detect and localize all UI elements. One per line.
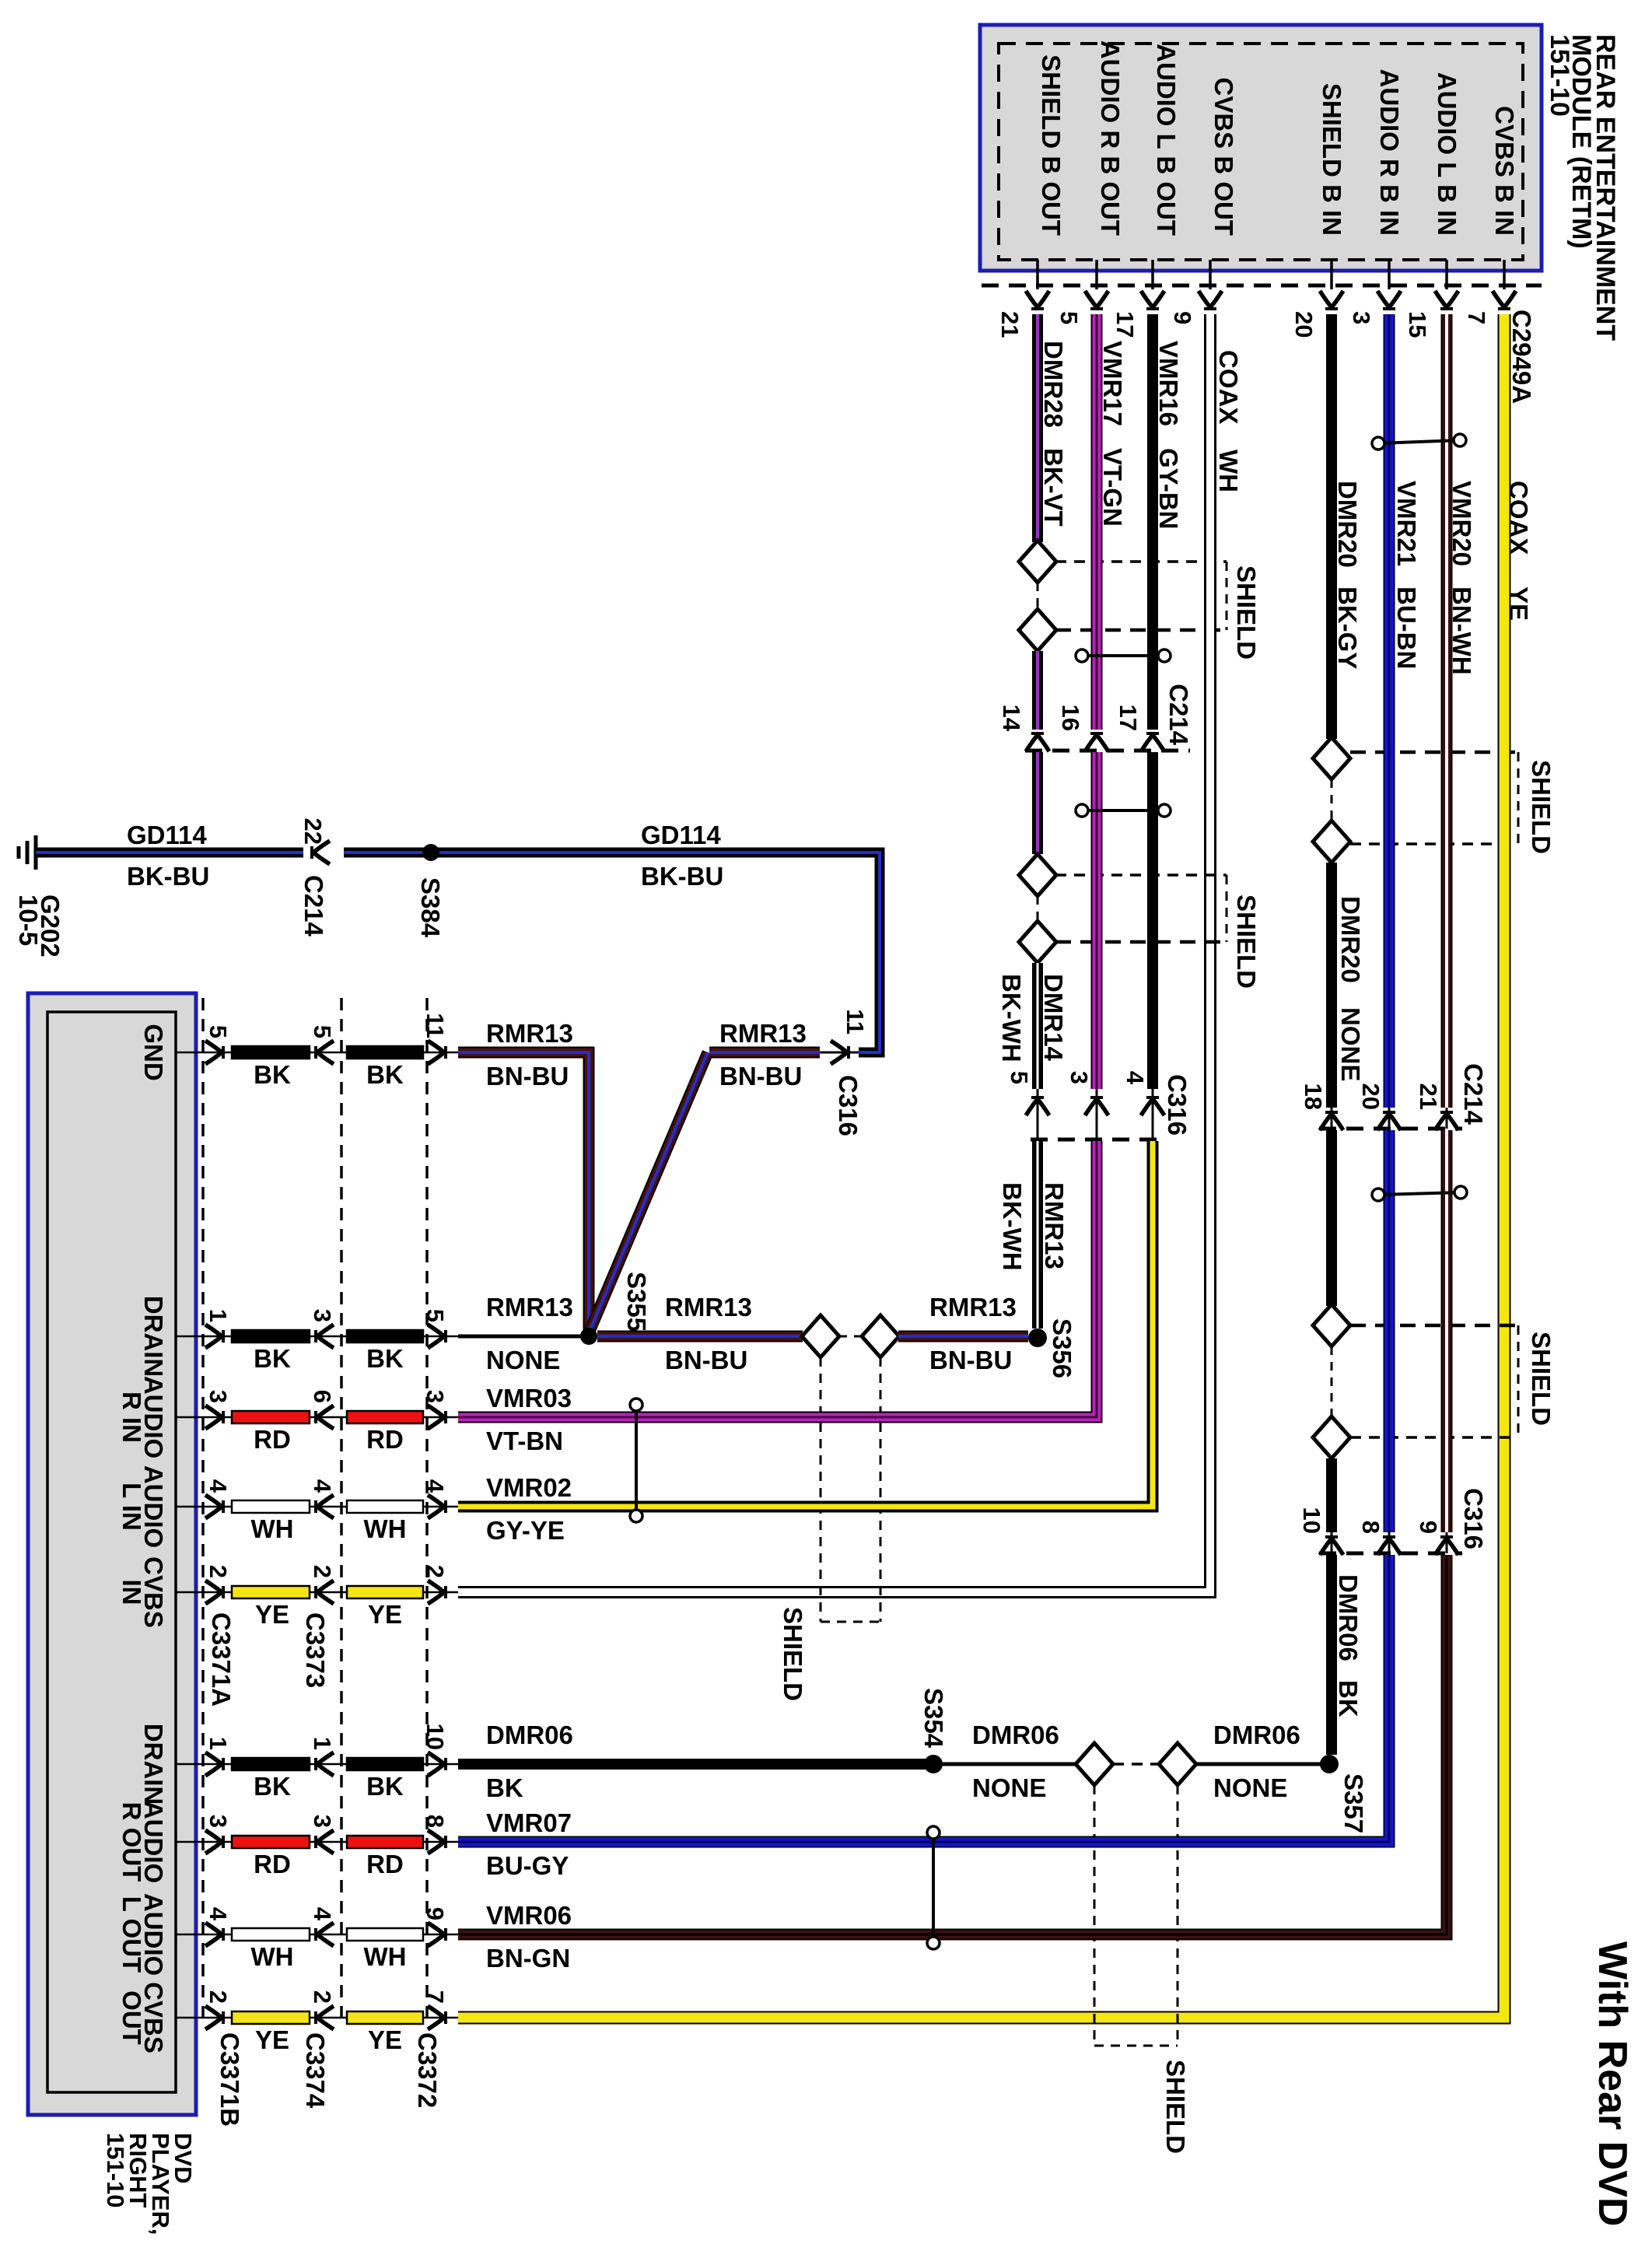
module DVD pin label AUDIO R IN [117,1376,168,1458]
connector C3372 name label [413,2032,442,2108]
svg-text:10-5: 10-5 [14,894,43,946]
module RETM pin label CVBS B IN [1490,106,1519,289]
splice S356 [1028,1318,1076,1378]
svg-text:SHIELD B OUT: SHIELD B OUT [1037,54,1066,236]
svg-text:C214: C214 [1164,684,1193,746]
wire VMR21 BU-BN segment C214 to C316 [1384,1130,1395,1532]
svg-text:S384: S384 [416,877,445,938]
shield bracket SHIELD label (upper left) [1055,562,1261,660]
svg-text:BK: BK [366,1060,404,1089]
wire ARIN row from DVD player through C3371/C3373 connectors [176,1390,458,1454]
connector C214 (left) name label [1164,684,1193,746]
svg-text:11: 11 [422,1013,449,1038]
svg-text:6: 6 [309,1390,336,1403]
svg-text:With Rear DVD: With Rear DVD [1590,1941,1635,2226]
svg-text:RD: RD [366,1425,404,1454]
caption With Rear DVD [1590,1941,1635,2226]
svg-text:BK: BK [1334,1680,1363,1717]
svg-text:10: 10 [422,1724,449,1750]
svg-text:3: 3 [422,1390,449,1403]
svg-text:7: 7 [422,1990,449,2004]
svg-text:RD: RD [254,1425,291,1454]
svg-text:WH: WH [364,1942,407,1971]
connector C316 pin 10 arrow [1298,1507,1343,1555]
module DVD PLAYER title label [102,2133,197,2235]
svg-text:BK: BK [254,1772,291,1801]
connector C2949A pin 15 arrow [1404,291,1458,338]
svg-text:AUDIO L B IN: AUDIO L B IN [1433,72,1461,236]
svg-text:WH: WH [251,1514,294,1543]
svg-text:4: 4 [205,1479,232,1493]
module DVD PLAYER RIGHT box [28,993,196,2115]
connector C316 pin 4 arrow [1122,1071,1164,1140]
wire GD114 BK-BU from ground to C214 pin 22 [36,821,303,891]
module RETM pin label SHIELD B OUT [1037,54,1066,289]
svg-text:BK-BU: BK-BU [641,862,723,891]
wire DMR28 BK-VT from RETM pin 21 (vertical) [1038,314,1068,542]
svg-text:YE: YE [255,2025,289,2054]
svg-text:VMR03: VMR03 [486,1384,572,1413]
svg-text:RMR13: RMR13 [719,1019,807,1048]
module DVD pin label CVBS IN [117,1556,168,1628]
svg-text:2: 2 [205,1990,232,2004]
svg-text:C316: C316 [834,1075,863,1136]
module DVD pin label CVBS OUT [117,1982,168,2053]
wire DMR06 BK vertical from C316 down to splice S357 [1332,1555,1363,1755]
svg-text:GD114: GD114 [641,821,721,849]
svg-text:3: 3 [309,1815,336,1828]
svg-text:SHIELD: SHIELD [1232,565,1261,660]
svg-text:BK: BK [366,1344,404,1373]
module DVD pin label DRAIN [139,1724,168,1805]
wire AROUT row from DVD player through C3371/C3373 connectors [176,1815,458,1878]
svg-text:4: 4 [309,1907,336,1921]
svg-text:BK-BU: BK-BU [127,862,209,891]
connector C214 pin 17 arrow [1115,705,1164,751]
svg-text:RD: RD [254,1850,291,1878]
wire DRAIN row from DVD player through C3371/C3373 connectors [176,1309,458,1373]
connector C2949A pin 5 arrow [1055,291,1108,324]
wire DMR20 to C316 pin 10 [1326,1458,1337,1532]
svg-text:5: 5 [1006,1071,1033,1084]
wire VMR20 BN-WH segment C214 to C316 [1441,1130,1453,1532]
svg-text:NONE: NONE [1336,1007,1365,1081]
svg-text:DMR14: DMR14 [1039,974,1068,1062]
svg-text:8: 8 [1357,1521,1384,1534]
svg-text:BU-BN: BU-BN [1392,586,1421,669]
wire GND row from DVD player through C3371/C3373 connectors [176,1013,458,1089]
svg-text:17: 17 [1115,705,1142,731]
svg-text:SHIELD: SHIELD [1527,1332,1556,1426]
svg-text:COAX: COAX [1214,350,1243,424]
svg-text:C214: C214 [1459,1063,1488,1126]
svg-text:BN-BU: BN-BU [486,1062,569,1090]
wire GD114 BK-BU from C214 to splice S384 and corner to C316 [344,821,880,1052]
svg-text:10: 10 [1298,1507,1325,1534]
svg-text:3: 3 [1066,1071,1093,1084]
wire VMR06 BN-GN (AUDIO L OUT row) from C316 corner [458,1555,1447,1973]
svg-text:YE: YE [368,1600,402,1629]
twisted pair symbol VMR17/VMR16 lower [1076,804,1171,817]
svg-text:SHIELD B IN: SHIELD B IN [1318,83,1346,236]
svg-text:9: 9 [1415,1521,1442,1534]
svg-text:151-10: 151-10 [102,2133,129,2208]
connector C214 pin 18 arrow [1300,1083,1343,1130]
svg-text:VMR02: VMR02 [486,1473,572,1502]
svg-text:9: 9 [1169,311,1196,324]
svg-text:WH: WH [1214,450,1243,492]
svg-text:BN-BU: BN-BU [929,1346,1012,1374]
module DVD pin label AUDIO R OUT [117,1801,168,1883]
wire RMR13 BN-BU diagonal from S355 up to GND row [589,1052,708,1333]
svg-text:1: 1 [309,1737,336,1750]
svg-text:DMR06: DMR06 [972,1721,1059,1749]
svg-text:2: 2 [309,1990,336,2004]
module RETM pin label AUDIO R B IN [1375,69,1404,290]
wire VMR21 BU-BN from RETM pin 3 (vertical) [1389,314,1421,1108]
wire DMR14 BK-WH to C316 [997,963,1068,1089]
module RETM title label [1545,34,1620,341]
connector C3373 name label [301,1612,330,1688]
svg-text:4: 4 [422,1479,449,1493]
twisted pair symbol VMR21/VMR20 upper [1372,434,1466,450]
splice S384 [416,844,445,938]
wire VMR16 GY-BN from RETM pin 17 (vertical) [1153,314,1183,730]
wire DMR14 BK-WH segment below C214 [1032,752,1043,854]
wire RMR13 BN-BU from S355 to shield diamonds [597,1293,803,1374]
connector C316 pin 3 arrow [1066,1071,1108,1140]
svg-text:3: 3 [1348,311,1375,324]
svg-text:15: 15 [1404,311,1431,338]
module DVD pin label GND [139,1024,168,1080]
svg-text:C214: C214 [299,875,328,937]
connector C214 pin 20 arrow [1357,1083,1401,1130]
svg-text:DMR20: DMR20 [1336,896,1365,983]
connector C2949A dashed connector line [982,284,1542,288]
svg-text:3: 3 [205,1390,232,1403]
svg-text:18: 18 [1300,1083,1327,1110]
svg-text:VMR20: VMR20 [1447,481,1476,566]
wire COAX WH from RETM pin 9 (hollow white coax), runs to CVBS IN row [458,314,1243,1592]
svg-text:C3374: C3374 [301,2032,330,2109]
module RETM pin label AUDIO L B OUT [1152,44,1181,289]
connector C2949A pin 3 arrow [1348,291,1401,324]
shield diamond pair on DMR20 (lower) [1313,1304,1350,1458]
connector C3374 name label [301,2032,330,2109]
svg-text:4: 4 [309,1479,336,1493]
svg-text:YE: YE [255,1600,289,1629]
svg-text:NONE: NONE [1213,1773,1287,1802]
wire VMR16 GY-BN segment C214 to C316 [1147,752,1158,1089]
connector C214 (right) name label [1459,1063,1488,1126]
svg-text:GY-BN: GY-BN [1154,448,1183,530]
svg-text:14: 14 [998,705,1025,732]
svg-text:BK-WH: BK-WH [998,1182,1027,1271]
svg-text:SHIELD: SHIELD [1527,760,1556,854]
twisted pair symbol VMR03/VMR02 [630,1399,642,1522]
svg-text:S355: S355 [622,1272,651,1332]
wire VMR03 VT-BN (AUDIO R IN row) from C316 corner [458,1141,1097,1455]
wire DMR06 NONE thin segment to splice S357 [1195,1721,1322,1802]
svg-text:NONE: NONE [486,1346,560,1374]
svg-text:GY-YE: GY-YE [486,1516,565,1545]
svg-text:VMR17: VMR17 [1098,341,1127,426]
svg-text:3: 3 [309,1309,336,1322]
svg-text:11: 11 [842,1009,869,1034]
svg-text:4: 4 [205,1907,232,1921]
wire DMR20 NONE below C214 to shield diamonds [1326,1130,1337,1306]
svg-text:RMR13: RMR13 [486,1019,573,1048]
svg-text:5: 5 [309,1025,336,1038]
shield diamond pair on RMR13 drain [802,1315,899,1357]
svg-text:C3371B: C3371B [215,2032,244,2127]
connector C214 (right group) dashed line [1319,1127,1462,1131]
svg-text:22: 22 [299,818,327,845]
svg-text:IN: IN [117,1580,146,1605]
splice S357 [1320,1755,1368,1833]
wire DRAIN2 row from DVD player through C3371/C3373 connectors [176,1724,458,1801]
wire DMR06 NONE thin segment to shield diamonds [943,1721,1076,1802]
svg-text:YE: YE [368,2025,402,2054]
twisted pair symbol VMR17/VMR16 upper [1076,649,1171,662]
svg-text:20: 20 [1290,311,1318,338]
shield diamond pair on DMR20 (upper) [1313,737,1350,863]
shield bracket SHIELD label (right mid) [1350,1325,1556,1437]
svg-text:CVBS B IN: CVBS B IN [1490,106,1519,236]
shield bracket with SHIELD label below (RMR13) [779,1357,880,1701]
wire VMR07 BU-GY (AUDIO R OUT row) from C316 corner [458,1555,1389,1880]
svg-text:SHIELD: SHIELD [1161,2060,1190,2154]
connector C316 pin 11 arrow (GND circuit) [820,1009,869,1136]
connector C3372 dashed line (third) [425,998,429,2021]
wire ALIN row from DVD player through C3371/C3373 connectors [176,1479,458,1543]
svg-text:7: 7 [1463,311,1490,324]
connector C2949A pin 9 arrow [1169,291,1222,324]
connector C316 (left group) dashed line [1031,1138,1163,1142]
svg-text:16: 16 [1057,705,1084,731]
svg-text:3: 3 [205,1815,232,1828]
svg-text:VMR06: VMR06 [486,1901,572,1930]
connector C316 (right group) dashed line [1319,1552,1462,1556]
wire DMR20 BK-GY from RETM pin 20 (vertical) [1332,314,1362,739]
svg-text:VMR16: VMR16 [1154,341,1183,426]
svg-text:COAX: COAX [1504,481,1533,555]
svg-text:VMR21: VMR21 [1392,481,1421,566]
svg-text:BK-VT: BK-VT [1039,448,1068,527]
connector C316 (right) name label [1459,1488,1488,1549]
svg-text:DMR28: DMR28 [1039,341,1068,428]
svg-text:DRAIN: DRAIN [139,1724,168,1805]
module DVD pin label AUDIO L IN [117,1465,168,1548]
svg-text:C316: C316 [1459,1488,1488,1549]
svg-text:CVBS B OUT: CVBS B OUT [1209,77,1238,236]
wire ALOUT row from DVD player through C3371/C3373 connectors [176,1907,458,1971]
svg-text:R IN: R IN [117,1392,146,1443]
connector C214 pin 16 arrow [1057,705,1108,751]
svg-text:2: 2 [205,1565,232,1578]
svg-text:21: 21 [996,311,1024,338]
connector C316 pin 9 arrow [1415,1521,1458,1555]
svg-text:VT-GN: VT-GN [1098,448,1127,527]
svg-text:BN-BU: BN-BU [665,1346,747,1374]
connector C214 pin 22 inline arrow [299,818,330,937]
wire RMR13 NONE (DRAIN row) thin drain wire [458,1293,582,1374]
connector C3373 / C3374 dashed line [340,998,343,2021]
svg-text:AUDIO R B IN: AUDIO R B IN [1375,69,1404,236]
svg-text:BN-WH: BN-WH [1447,586,1476,675]
wire VMR17 VT-GN from RETM pin 5 (vertical) [1097,314,1127,730]
svg-text:5: 5 [1055,311,1083,324]
svg-text:BK-GY: BK-GY [1333,586,1362,669]
svg-text:2: 2 [309,1565,336,1578]
connector C3371B name label [215,2032,244,2127]
svg-text:L IN: L IN [117,1483,146,1531]
module RETM (Rear Entertainment Module) box [980,25,1542,271]
connector C316 pin 8 arrow [1357,1521,1401,1555]
svg-text:C3371A: C3371A [207,1612,236,1707]
wire CVIN row from DVD player through C3371/C3373 connectors [176,1565,458,1629]
svg-text:1: 1 [205,1309,232,1322]
svg-text:RMR13: RMR13 [665,1293,752,1322]
connector C3371A / C3371B dashed line [201,998,205,2021]
svg-text:GD114: GD114 [127,821,207,849]
svg-text:8: 8 [422,1815,449,1828]
svg-text:BK: BK [366,1772,404,1801]
svg-text:RMR13: RMR13 [929,1293,1017,1322]
svg-text:BK-WH: BK-WH [997,974,1026,1062]
svg-text:BN-GN: BN-GN [486,1944,570,1973]
connector C316 pin 5 arrow [1006,1071,1049,1140]
svg-text:WH: WH [364,1514,407,1543]
svg-text:NONE: NONE [972,1773,1046,1802]
svg-text:DMR06: DMR06 [1334,1574,1363,1661]
wire DMR20 NONE continues to C214 [1332,863,1365,1108]
splice S354 [919,1688,948,1773]
module RETM pin label CVBS B OUT [1209,77,1238,289]
svg-text:C316: C316 [1163,1074,1192,1136]
svg-text:SHIELD: SHIELD [1232,894,1261,989]
wire CVOUT row from DVD player through C3371/C3373 connectors [176,1990,458,2054]
svg-text:GND: GND [139,1024,168,1080]
svg-text:L OUT: L OUT [117,1896,146,1973]
svg-text:C2949A: C2949A [1507,310,1536,404]
svg-text:BN-BU: BN-BU [719,1062,802,1090]
svg-text:151-10: 151-10 [1545,34,1574,117]
wire VMR20 BN-WH from RETM pin 15 (vertical) [1447,314,1476,1108]
svg-text:9: 9 [422,1907,449,1920]
wire RMR13 BN-BU second segment to C316 pin 11 [709,1019,820,1090]
svg-text:S356: S356 [1048,1318,1076,1378]
twisted pair symbol VMR21/VMR20 lower [1372,1186,1467,1201]
svg-text:VT-BN: VT-BN [486,1427,563,1455]
svg-text:4: 4 [1122,1071,1149,1085]
wire VMR17 VT-GN segment C214 to C316 [1091,752,1103,1089]
connector C2949A pin 17 arrow [1111,291,1164,338]
shield bracket with SHIELD label below (DMR06) [1094,1785,1190,2154]
module DVD pin label AUDIO L OUT [117,1893,168,1976]
connector C2949A name label [1507,310,1536,404]
svg-text:DMR06: DMR06 [486,1721,573,1749]
svg-text:RMR13: RMR13 [1040,1182,1069,1269]
shield diamond pair on DMR14 [1019,854,1056,963]
svg-text:BK: BK [254,1060,291,1089]
connector C2949A pin 7 arrow [1463,291,1516,324]
wire RMR13 BK-WH from C316 to splice S356 [998,1141,1069,1329]
svg-text:RD: RD [366,1850,404,1878]
connector C214 (left group) dashed line [1025,749,1190,753]
connector C3371A name label [207,1612,236,1707]
wire RMR13 BN-BU (GND row) to corner and down to splice S355 [458,1019,589,1332]
shield bracket SHIELD label (left mid) [1055,875,1261,989]
wire VMR02 GY-YE (AUDIO L IN row) from C316 corner [458,1141,1153,1545]
svg-text:S354: S354 [919,1688,948,1749]
svg-text:DRAIN: DRAIN [139,1296,168,1378]
connector C316 (left) name label [1163,1074,1192,1136]
svg-text:VMR07: VMR07 [486,1808,572,1837]
svg-text:17: 17 [1111,311,1139,338]
svg-text:C3373: C3373 [301,1612,330,1688]
connector C214 pin 21 arrow [1415,1083,1458,1130]
svg-text:C3372: C3372 [413,2032,442,2108]
svg-text:5: 5 [205,1025,232,1038]
svg-text:20: 20 [1357,1083,1384,1110]
wire COAX YE from RETM pin 7 (thick yellow), runs to CVBS OUT row [458,314,1533,2018]
wire DMR06 BK (DRAIN row 2) to splice S354 [458,1721,926,1802]
wire RMR13 BN-BU from diamonds to splice S356 [898,1293,1028,1374]
shield diamond pair on DMR06 [1076,1743,1196,1785]
module RETM pin label AUDIO R B OUT [1096,40,1125,289]
svg-text:OUT: OUT [117,1990,146,2045]
module RETM pin label AUDIO L B IN [1433,72,1461,289]
svg-text:WH: WH [251,1942,294,1971]
shield diamond pair on DMR28 [1019,541,1056,651]
svg-text:RMR13: RMR13 [486,1293,573,1322]
svg-text:BU-GY: BU-GY [486,1851,569,1880]
svg-text:BK: BK [486,1773,523,1802]
svg-text:2: 2 [422,1565,449,1578]
connector C214 pin 14 arrow [998,705,1049,751]
ground G202 symbol [14,835,65,957]
wire DMR28 BK-VT continues to C214 [1032,651,1043,730]
svg-text:S357: S357 [1339,1773,1368,1833]
svg-text:1: 1 [205,1737,232,1750]
svg-text:21: 21 [1415,1083,1442,1110]
shield bracket SHIELD label (upper right) [1350,752,1556,854]
module RETM pin label SHIELD B IN [1318,83,1346,289]
svg-text:DMR06: DMR06 [1213,1721,1300,1749]
module DVD pin label DRAIN [139,1296,168,1378]
twisted pair symbol VMR07/VMR06 [927,1826,940,1949]
svg-text:R OUT: R OUT [117,1802,146,1882]
svg-text:5: 5 [422,1309,449,1322]
svg-text:SHIELD: SHIELD [779,1607,807,1701]
svg-text:DMR20: DMR20 [1333,481,1362,568]
connector C2949A pin 20 arrow [1290,291,1343,338]
svg-text:BK: BK [254,1344,291,1373]
svg-text:YE: YE [1504,586,1533,621]
splice S355 [580,1272,651,1345]
connector C2949A pin 21 arrow [996,291,1049,338]
svg-text:AUDIO R B OUT: AUDIO R B OUT [1096,40,1125,236]
svg-text:AUDIO L B OUT: AUDIO L B OUT [1152,44,1181,236]
